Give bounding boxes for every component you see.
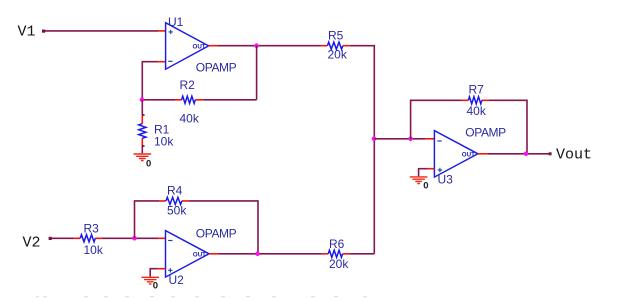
resistor R5 (321, 42, 350, 49)
wire R7 feedback loop left (411, 100, 462, 139)
wire R5 to main vertical (350, 46, 375, 254)
svg-text:R6: R6 (329, 237, 345, 251)
ground 0 G3 (141, 277, 159, 291)
wire U3 out to Vout (488, 153, 551, 155)
pin stub U2 out (209, 253, 218, 255)
svg-text:20k: 20k (329, 257, 349, 271)
pin stub U2 + (158, 268, 166, 270)
svg-text:40k: 40k (180, 112, 200, 126)
wire R7 feedback loop right (489, 100, 527, 153)
op-amp U3 (434, 131, 478, 178)
svg-text:50k: 50k (167, 204, 187, 218)
svg-text:10k: 10k (84, 243, 104, 257)
resistor R3 (74, 235, 101, 242)
junction J2 (140, 97, 145, 102)
resistor R4 (159, 197, 188, 204)
svg-text:0: 0 (146, 158, 151, 169)
ground 0 G2 (410, 177, 429, 192)
svg-text:OUT: OUT (193, 251, 206, 258)
resistor R6 (322, 250, 350, 257)
svg-text:U2: U2 (169, 273, 185, 287)
wire U3 + to ground (419, 169, 428, 177)
wire V1 to U1 + (43, 30, 158, 32)
svg-text:R4: R4 (167, 183, 183, 197)
svg-text:U3: U3 (438, 172, 454, 186)
wire R2 right segment (203, 99, 256, 101)
svg-text:V2: V2 (23, 235, 41, 252)
wire J6 up to R4 (135, 201, 160, 238)
svg-text:20k: 20k (328, 47, 348, 61)
wire R6 to main vertical (349, 253, 374, 255)
pin stub U3 - (426, 138, 435, 140)
svg-text:10k: 10k (154, 135, 174, 149)
wire end square Vout (549, 152, 552, 155)
junction J5 (524, 152, 529, 157)
pin tick R1 bottom (142, 145, 144, 147)
wire U2 out to R6 (218, 253, 321, 255)
ground 0 G1 (134, 154, 152, 169)
svg-text:OUT: OUT (462, 151, 475, 158)
wire R2 left segment (142, 99, 175, 101)
junction J3 (372, 137, 377, 142)
cropped caption fragments at bottom (36, 296, 367, 297)
svg-text:R3: R3 (84, 221, 100, 235)
wire R3 to U2 - (101, 237, 158, 239)
wire U1 out to R5 (218, 45, 321, 47)
junction J4 (408, 137, 413, 142)
svg-text:R2: R2 (180, 78, 196, 92)
svg-text:R5: R5 (328, 28, 344, 42)
svg-text:OPAMP: OPAMP (196, 226, 237, 240)
svg-text:V1: V1 (18, 24, 36, 41)
junction J1 (254, 43, 259, 48)
pin stub U1 - (158, 61, 165, 63)
wire J2 down to R1 (141, 100, 143, 116)
resistor R1 (139, 116, 146, 146)
svg-text:OPAMP: OPAMP (465, 125, 506, 139)
op-amp U1 (166, 23, 209, 69)
pin stub U2 - (158, 237, 165, 239)
wire V2 to R3 (50, 237, 75, 239)
resistor R7 (462, 97, 489, 104)
svg-text:OUT: OUT (193, 43, 206, 50)
wire R1 to ground (141, 146, 143, 153)
pin stub U3 out (478, 153, 488, 155)
op-amp U2 (166, 231, 210, 278)
svg-text:0: 0 (153, 281, 158, 292)
wire J1 down to R2 (256, 46, 258, 100)
svg-text:U1: U1 (168, 15, 184, 29)
svg-text:R7: R7 (469, 82, 485, 96)
pin stub U1 + (158, 30, 166, 32)
junction J7 (255, 252, 260, 257)
wire end square V2 (49, 237, 52, 240)
svg-text:Vout: Vout (556, 147, 592, 164)
wire R4 down to J7 (189, 201, 258, 254)
svg-text:OPAMP: OPAMP (196, 61, 237, 75)
wire U2 + to ground (150, 269, 158, 277)
pin stub U1 out (209, 45, 218, 47)
wire J3 to U3 - (374, 138, 425, 140)
wire U1 - feedback down (142, 62, 158, 100)
pin stub U3 + (428, 168, 435, 170)
svg-text:40k: 40k (467, 104, 487, 118)
svg-text:0: 0 (423, 181, 428, 192)
wire end square V1 (42, 30, 45, 33)
pin tick R1 top (142, 114, 144, 116)
resistor R2 (175, 96, 203, 103)
junction J6 (132, 236, 137, 241)
